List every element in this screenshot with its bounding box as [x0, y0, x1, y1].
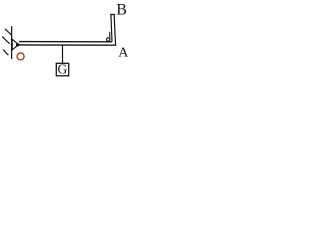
wall vertical line: [11, 26, 13, 59]
wall hatch 3: [3, 50, 8, 56]
hanging string: [62, 45, 64, 63]
svg-text:B: B: [116, 2, 127, 19]
riser right edge: [114, 14, 116, 45]
riser left edge: [111, 14, 112, 42]
weight box: [56, 63, 68, 76]
riser top cap: [110, 14, 114, 16]
hinge pivot dot: [16, 43, 19, 46]
corner hook stem: [109, 32, 111, 41]
svg-text:G: G: [58, 62, 68, 77]
hinge bracket triangle: [12, 39, 18, 50]
label O: [17, 53, 24, 60]
beam top edge: [19, 41, 112, 43]
wall hatch 1: [5, 29, 11, 35]
svg-text:A: A: [118, 45, 129, 60]
corner hook ring: [107, 38, 110, 41]
beam bottom edge: [19, 44, 116, 46]
wall hatch 2: [2, 37, 9, 44]
